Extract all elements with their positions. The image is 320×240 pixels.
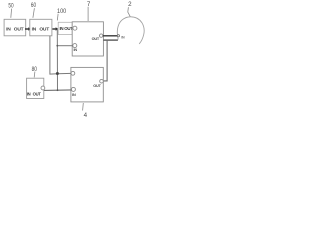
svg-text:OUT: OUT <box>14 26 24 32</box>
svg-text:60: 60 <box>31 2 37 9</box>
svg-text:7: 7 <box>87 1 91 8</box>
svg-text:IN: IN <box>72 93 76 97</box>
ear 2 outline <box>117 17 144 44</box>
leader for label 80 <box>33 72 36 78</box>
svg-text:IN: IN <box>6 26 11 32</box>
leader for label 50 <box>10 9 13 18</box>
leader for label 60 <box>33 8 35 18</box>
terminal circle: IN of block 7 (feedback) <box>73 44 77 48</box>
svg-text:IN: IN <box>32 26 37 32</box>
wire branch down from ear line to block 4 OUT <box>103 40 107 81</box>
svg-text:4: 4 <box>84 112 88 119</box>
wire from block 7 OUT to ear <box>103 35 118 37</box>
junction node V2 to bottom wire <box>57 89 59 91</box>
svg-text:50: 50 <box>8 3 14 10</box>
terminal circle: OUT of block 80 <box>41 86 45 90</box>
block 4 box <box>71 67 103 102</box>
terminal circle: lower IN of block 4 <box>71 87 75 91</box>
terminal circle at ear end of wire <box>117 35 119 37</box>
terminal circle: input of block 7 from 100 <box>73 26 77 30</box>
block 60 box <box>30 19 52 36</box>
block 50 box <box>4 19 26 36</box>
block 80 box <box>27 78 44 98</box>
leader for label 2 <box>128 7 130 16</box>
wire arrow from 50 OUT to 60 IN <box>25 28 29 30</box>
svg-text:IN: IN <box>60 26 64 31</box>
wire from V2 to block 7 IN <box>57 45 73 47</box>
block 7 box <box>72 22 103 56</box>
leader for label 7 <box>87 7 89 21</box>
wire V1 from block 60 bottom down and right to block 4 upper input <box>50 36 71 74</box>
junction node V2 to block7 IN wire <box>56 45 58 47</box>
svg-text:IN: IN <box>27 92 31 97</box>
wire arrow from 60 OUT to 100 IN <box>52 28 56 30</box>
terminal circle: OUT of block 7 <box>100 34 103 37</box>
terminal circle: OUT of block 4 <box>100 79 104 83</box>
svg-text:IN: IN <box>73 48 77 52</box>
bottom wire from block 80 OUT to block 4 lower IN <box>44 89 72 92</box>
junction node on V1/V2 crossing <box>56 72 59 75</box>
wire from block 7 right edge down to block 4 OUT <box>103 39 118 41</box>
svg-text:OUT: OUT <box>93 84 101 88</box>
svg-text:OUT: OUT <box>33 92 42 97</box>
svg-text:2: 2 <box>128 1 132 8</box>
svg-text:OUT: OUT <box>92 37 100 41</box>
svg-text:80: 80 <box>32 66 38 73</box>
wire V2 from 60-100 node down to bottom wire <box>56 29 58 90</box>
svg-text:OUT: OUT <box>39 26 49 32</box>
terminal circle: upper input of block 4 <box>71 71 75 75</box>
leader for label 100 <box>56 14 59 21</box>
leader for label 4 <box>82 103 85 111</box>
background <box>0 0 146 120</box>
block 100 box <box>58 22 72 34</box>
